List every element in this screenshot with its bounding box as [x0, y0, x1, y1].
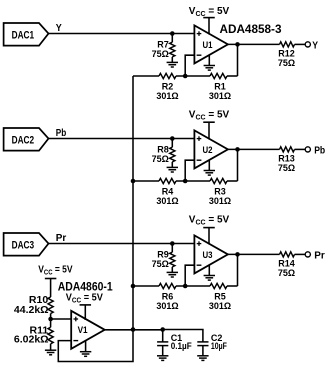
- Vcc bar U2: [203, 121, 215, 123]
- svg-text:ADA4858-3: ADA4858-3: [220, 22, 282, 36]
- svg-text:6.02kΩ: 6.02kΩ: [14, 333, 49, 345]
- node U1 output: [235, 42, 240, 47]
- svg-text:R2: R2: [162, 81, 174, 91]
- Vcc bar V1: [80, 304, 92, 306]
- wire U2 output: [228, 148, 280, 150]
- DAC2 input block: [4, 128, 49, 151]
- svg-text:VCC = 5V: VCC = 5V: [189, 214, 230, 226]
- wire feedback rail: [133, 75, 159, 77]
- wire feedback rail: [133, 285, 159, 287]
- svg-text:R13: R13: [278, 154, 295, 164]
- wire output to feedback rail: [237, 44, 239, 76]
- svg-text:R4: R4: [162, 186, 174, 196]
- ground stem U2: [208, 160, 210, 171]
- capacitor C2: [202, 341, 204, 343]
- svg-text:301Ω: 301Ω: [209, 91, 231, 101]
- svg-text:0.1µF: 0.1µF: [171, 341, 192, 351]
- op-amp U2: [194, 130, 228, 168]
- svg-text:R3: R3: [214, 186, 226, 196]
- svg-text:R5: R5: [214, 291, 226, 301]
- node feedback junction U3: [183, 284, 188, 289]
- svg-text:VCC = 5V: VCC = 5V: [189, 110, 230, 122]
- terminal Pb out: [305, 147, 310, 152]
- node bus / rail2: [131, 179, 136, 184]
- ground below U3: [204, 275, 215, 277]
- wire to C2: [163, 330, 203, 342]
- svg-text:75Ω: 75Ω: [152, 49, 169, 59]
- svg-text:301Ω: 301Ω: [156, 196, 178, 206]
- svg-text:R12: R12: [278, 49, 295, 59]
- Vcc bar U3: [203, 227, 215, 229]
- wire DAC3 to U3 +input: [49, 243, 195, 245]
- wire midsupply bus: [132, 76, 134, 330]
- svg-text:VCC = 5V: VCC = 5V: [189, 6, 230, 18]
- resistor R14: [280, 252, 295, 257]
- ground below U1: [204, 65, 215, 67]
- wire Vcc to U1: [208, 18, 210, 35]
- ground stem U3: [208, 265, 210, 276]
- wire Vcc to U2: [208, 122, 210, 139]
- ground below R11: [45, 349, 56, 351]
- op-amp U1: [194, 25, 228, 63]
- svg-text:U3: U3: [203, 250, 213, 261]
- wire V1 feedback: [58, 330, 133, 362]
- node C1 junction: [160, 327, 165, 332]
- svg-text:301Ω: 301Ω: [209, 196, 231, 206]
- node bus / rail3: [131, 284, 136, 289]
- terminal Y out: [305, 42, 310, 47]
- resistor R5: [210, 283, 227, 288]
- resistor R11: [48, 327, 53, 344]
- wire divider to V1 +input: [51, 318, 72, 320]
- svg-text:Pr: Pr: [56, 233, 67, 244]
- op-amp V1: [71, 311, 105, 349]
- node V1 output / bus: [131, 327, 136, 332]
- node feedback junction U2: [183, 179, 188, 184]
- resistor R3: [210, 178, 227, 183]
- ground stem V1: [85, 340, 87, 352]
- svg-text:Pr: Pr: [314, 250, 325, 261]
- resistor R12: [280, 42, 295, 47]
- wire U1 output: [228, 43, 280, 45]
- svg-text:DAC2: DAC2: [12, 135, 34, 147]
- svg-text:75Ω: 75Ω: [152, 259, 169, 269]
- node R9 junction: [170, 241, 175, 246]
- svg-text:VCC = 5V: VCC = 5V: [66, 292, 104, 304]
- svg-text:R6: R6: [162, 291, 174, 301]
- ground below U2: [204, 170, 215, 172]
- svg-text:Y: Y: [56, 23, 62, 34]
- wire U3 output: [228, 253, 280, 255]
- svg-text:75Ω: 75Ω: [278, 163, 295, 173]
- Vcc bar divider: [45, 278, 57, 280]
- wire -input U1: [185, 55, 194, 76]
- resistor R8: [171, 139, 173, 148]
- capacitor C1: [162, 330, 164, 342]
- svg-text:10µF: 10µF: [211, 341, 227, 351]
- wire Vcc to V1: [84, 305, 86, 320]
- wire DAC2 to U2 +input: [49, 138, 195, 140]
- svg-text:75Ω: 75Ω: [152, 154, 169, 164]
- resistor R10: [50, 279, 52, 298]
- svg-text:R1: R1: [214, 81, 226, 91]
- node R8 junction: [170, 136, 175, 141]
- ground below R8: [167, 166, 178, 168]
- node feedback junction U1: [183, 74, 188, 79]
- ground below R7: [167, 61, 178, 63]
- svg-text:DAC3: DAC3: [12, 240, 34, 252]
- svg-text:301Ω: 301Ω: [209, 301, 231, 311]
- svg-text:Pb: Pb: [56, 128, 67, 139]
- svg-text:U2: U2: [203, 145, 213, 156]
- resistor R2: [159, 73, 176, 78]
- Vcc bar U1: [203, 17, 215, 19]
- wire DAC1 to U1 +input: [49, 33, 195, 35]
- op-amp U3: [194, 235, 228, 273]
- DAC3 input block: [4, 233, 49, 256]
- resistor R7: [171, 34, 173, 43]
- DAC1 input block: [4, 23, 49, 46]
- svg-text:301Ω: 301Ω: [156, 91, 178, 101]
- svg-text:Y: Y: [312, 40, 318, 51]
- wire V1 output: [105, 329, 163, 331]
- resistor R1: [210, 73, 227, 78]
- node R7 junction: [170, 31, 175, 36]
- svg-text:Pb: Pb: [314, 145, 325, 156]
- svg-text:75Ω: 75Ω: [278, 58, 295, 68]
- svg-text:301Ω: 301Ω: [156, 301, 178, 311]
- wire output to feedback rail: [237, 254, 239, 286]
- resistor R13: [280, 147, 295, 152]
- resistor R9: [171, 244, 173, 253]
- svg-text:DAC1: DAC1: [12, 30, 34, 42]
- ground below V1: [80, 351, 91, 353]
- ground below R9: [167, 271, 178, 273]
- wire Vcc to U3: [208, 228, 210, 245]
- wire output to feedback rail: [237, 149, 239, 181]
- wire -input U2: [185, 160, 194, 181]
- svg-text:75Ω: 75Ω: [278, 268, 295, 278]
- svg-text:R14: R14: [278, 259, 295, 269]
- node R10/R11 junction: [48, 317, 53, 322]
- node U2 output: [235, 147, 240, 152]
- svg-text:44.2kΩ: 44.2kΩ: [14, 304, 49, 316]
- resistor R4: [159, 178, 176, 183]
- svg-text:U1: U1: [203, 40, 214, 51]
- wire -input U3: [185, 265, 194, 286]
- node U3 output: [235, 252, 240, 257]
- terminal Pr out: [305, 252, 310, 257]
- resistor R6: [159, 283, 176, 288]
- svg-text:V1: V1: [78, 325, 89, 336]
- wire feedback rail: [133, 180, 159, 182]
- ground stem U1: [208, 55, 210, 66]
